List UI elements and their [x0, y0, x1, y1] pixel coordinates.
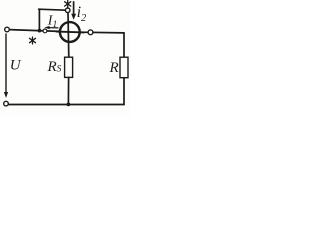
svg-text:I1: I1 [47, 14, 57, 30]
svg-text:RS: RS [47, 59, 62, 75]
terminal T4 (right) [88, 30, 93, 35]
polarity star (left) [30, 37, 36, 44]
terminal T1 (left top) [5, 27, 10, 32]
wire (vertical through source: T2 to RS) [67, 13, 70, 58]
wire (right horizontal, source to R branch) [79, 31, 124, 34]
current source X1 (circle with cross) [57, 22, 85, 42]
current arrow I1 (points left) [44, 26, 58, 29]
wire (RS to bottom) [67, 77, 69, 104]
polarity star (top) [65, 0, 71, 7]
svg-text:U: U [10, 58, 22, 74]
wire (right vertical, top) [123, 33, 125, 57]
wire (right vertical, bottom) [123, 78, 125, 105]
resistor RS (body) [65, 57, 73, 77]
wire (left horizontal, T1 to source) [10, 30, 60, 32]
voltage arrow U (points down) [4, 34, 8, 98]
terminal T3 (tap on left wire) [43, 29, 47, 33]
terminal T2 (top, starred) [65, 8, 70, 13]
wire (bottom) [9, 104, 124, 106]
svg-text:i2: i2 [77, 4, 87, 24]
resistor R (body) [120, 57, 128, 77]
wire (top loop horizontal) [39, 9, 66, 10]
current arrow i2 (points down) [71, 2, 76, 20]
terminal T5 (left bottom) [4, 101, 9, 106]
junction J2 (RS / bottom wire) [67, 103, 71, 107]
wire (top loop vertical) [38, 9, 40, 30]
junction J1 (left wire / top loop) [38, 29, 42, 33]
svg-text:R: R [109, 60, 119, 76]
